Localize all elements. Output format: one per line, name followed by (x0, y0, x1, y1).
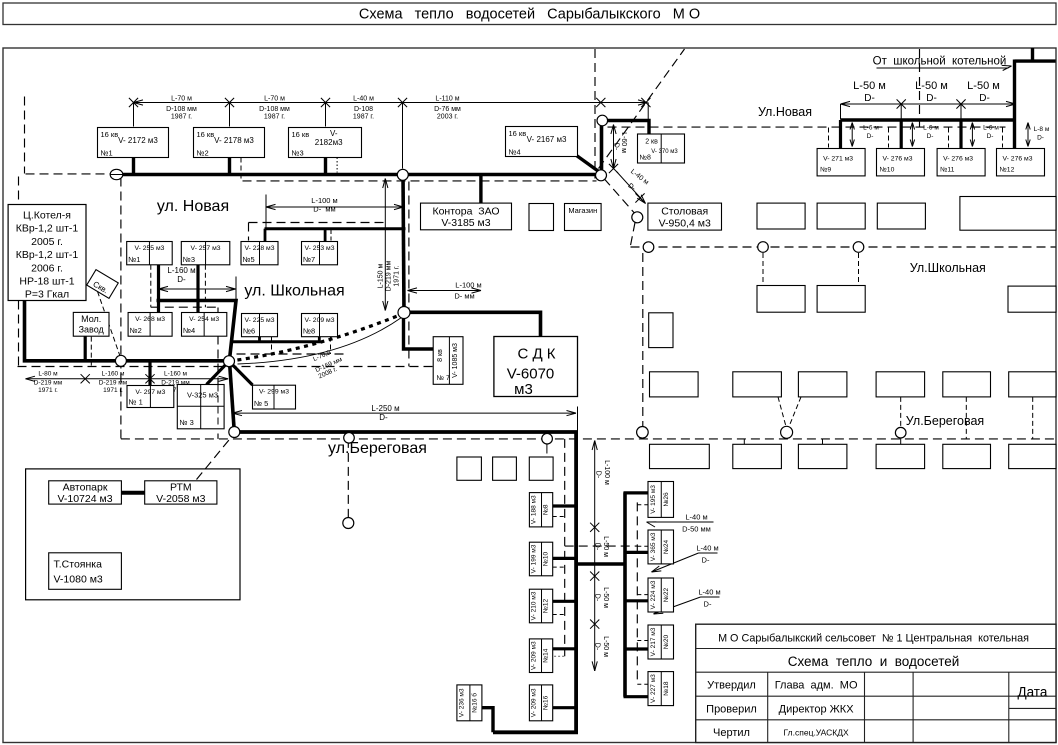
house V-224 No22 (648, 578, 674, 612)
svg-text:м3: м3 (514, 381, 533, 398)
svg-text:D-219 мм: D-219 мм (386, 260, 393, 291)
svg-text:L-250 м: L-250 м (371, 404, 399, 413)
svg-text:№6: №6 (243, 327, 255, 336)
svg-text:V-1080 м3: V-1080 м3 (54, 574, 103, 586)
svg-text:L-80 м: L-80 м (38, 371, 58, 378)
svg-text:Проверил: Проверил (706, 704, 757, 716)
stubs street to row4 houses (743, 439, 745, 445)
house V-199 No10 (529, 542, 552, 576)
box Skv (87, 270, 119, 299)
svg-text:От школьной котельной: От школьной котельной (873, 56, 1007, 68)
svg-text:М О Сарыбалыкский сельсовет №: М О Сарыбалыкский сельсовет № 1 Централь… (718, 633, 1029, 645)
svg-text:ул.Береговая: ул.Береговая (328, 440, 427, 457)
well Shkolnaya a (643, 242, 654, 253)
house No9 (817, 149, 865, 176)
svg-text:1987 г.: 1987 г. (264, 114, 285, 121)
svg-text:V- 199 м3: V- 199 м3 (531, 544, 538, 573)
svg-text:D-: D- (177, 275, 186, 284)
dashed diagonal to stolovaya well (604, 179, 637, 216)
title block table (696, 624, 1056, 742)
dashed water line left vertical (24, 97, 26, 174)
well at x601 upper (597, 115, 608, 126)
svg-text:V- 276 м3: V- 276 м3 (1003, 156, 1033, 163)
house V-325 No3 group (177, 385, 224, 429)
dashed street Shkolnaya (631, 246, 1056, 248)
dashed stubs right column (637, 504, 648, 506)
dashed stubs below Shkolnaya wells (762, 253, 764, 286)
dimension L-150 vertical (384, 179, 386, 311)
svg-text:V- 209 м3: V- 209 м3 (305, 317, 335, 324)
svg-text:№4: №4 (183, 326, 195, 335)
svg-text:L-40 м: L-40 м (698, 588, 720, 597)
pipe vertical x601 (600, 120, 604, 176)
svg-text:№16: №16 (543, 695, 550, 710)
svg-text:ул. Новая: ул. Новая (157, 198, 229, 215)
svg-text:Утвердил: Утвердил (707, 680, 756, 692)
dimension L-250 (233, 412, 577, 414)
pipe feed houses 6 8 from below (232, 340, 321, 343)
house No11 (937, 149, 985, 176)
well Beregovaya SDK (542, 433, 553, 444)
dashed water line left lower vertical (18, 177, 20, 205)
pipe to house 7 (404, 314, 434, 350)
dashed V to Beregovaya well (778, 397, 786, 427)
dimension risers L-50 (840, 104, 842, 120)
svg-text:№ 3: № 3 (180, 418, 194, 427)
pipe riser to house V-297 (148, 361, 151, 388)
house V-225 No6 (242, 314, 278, 337)
svg-text:D-108 мм: D-108 мм (166, 106, 197, 113)
dimension L-160 (159, 288, 236, 290)
svg-text:V- 2172 м3: V- 2172 м3 (118, 136, 158, 145)
svg-text:Автопарк: Автопарк (63, 482, 108, 494)
box Magazin (565, 204, 602, 231)
svg-text:№16 б: №16 б (470, 693, 478, 713)
svg-text:V- 217 м3: V- 217 м3 (650, 627, 657, 656)
box Kontora ZAO (421, 203, 512, 230)
dashed drop Mol Zavod (90, 337, 92, 367)
dashed drops below houses 1-3 (150, 265, 152, 307)
well at x402 (397, 169, 408, 180)
svg-text:16 кв: 16 кв (197, 130, 215, 139)
house V-268 No2 (128, 313, 172, 337)
svg-text:Чертил: Чертил (713, 727, 750, 739)
empty house near Kontora (529, 204, 554, 231)
svg-text:V- 254 м3: V- 254 м3 (189, 316, 219, 323)
svg-text:№24: №24 (663, 539, 670, 554)
dashed diagonal from well Skv (98, 292, 121, 358)
svg-text:V- 227 м3: V- 227 м3 (650, 674, 657, 703)
pipe diagonals from well (207, 361, 230, 384)
house V-188 No8 (529, 493, 552, 527)
svg-text:L-40 м: L-40 м (685, 513, 707, 522)
svg-text:№11: №11 (940, 167, 955, 174)
svg-text:D-: D- (1037, 135, 1044, 142)
svg-text:L-70 м: L-70 м (264, 96, 285, 103)
svg-text:ул. Школьная: ул. Школьная (244, 283, 344, 300)
svg-text:D-: D- (926, 93, 937, 104)
svg-text:№4: №4 (509, 148, 521, 157)
svg-text:№1: №1 (128, 255, 140, 264)
dashed line y222 (249, 222, 384, 224)
house V-209 No8 (302, 314, 338, 337)
house 16kv No3 (289, 128, 362, 158)
svg-text:РТМ: РТМ (170, 482, 192, 494)
dashed stubs x965 x1034 (965, 397, 967, 439)
svg-text:2003 г.: 2003 г. (437, 114, 458, 121)
svg-text:D-76 мм: D-76 мм (434, 106, 461, 113)
svg-text:V- 224 м3: V- 224 м3 (650, 580, 657, 609)
dimension L-40 diagonal (617, 172, 646, 204)
svg-text:№1: №1 (101, 149, 113, 158)
dashed drop from house 2 (240, 158, 242, 180)
svg-text:№2: №2 (197, 149, 209, 158)
svg-text:№ 7: № 7 (437, 375, 450, 382)
svg-text:№8: №8 (640, 155, 652, 162)
dashed stubs left column (553, 516, 565, 518)
svg-text:Гл.спец.УАСКДХ: Гл.спец.УАСКДХ (784, 728, 849, 738)
svg-text:Дата: Дата (1017, 685, 1047, 700)
dashed drop near house 7 stub (330, 230, 332, 241)
dashed feeder right column (636, 502, 638, 684)
svg-text:V- 195 м3: V- 195 м3 (650, 485, 657, 514)
svg-text:D-50 мм: D-50 мм (682, 525, 711, 534)
dashed water line to well (26, 173, 111, 175)
house 16kv No2 (194, 128, 265, 158)
svg-text:Ул.Школьная: Ул.Школьная (910, 261, 986, 275)
svg-text:V- 209 м3: V- 209 м3 (531, 641, 538, 670)
svg-text:V-2058 м3: V-2058 м3 (156, 493, 205, 505)
house 8kv No7 (433, 337, 463, 385)
well Shkolnaya b (758, 242, 769, 253)
houses row below Beregovaya (650, 444, 710, 468)
dotted stub no14 (554, 655, 565, 657)
svg-text:V- 255 м3: V- 255 м3 (134, 245, 164, 252)
svg-text:НР-18 шт-1: НР-18 шт-1 (19, 276, 74, 288)
svg-text:№ 1: № 1 (129, 398, 143, 407)
svg-text:V-6070: V-6070 (507, 366, 555, 383)
svg-text:№14: №14 (543, 648, 550, 663)
svg-text:Завод: Завод (79, 325, 105, 335)
leader L-40 third (701, 596, 720, 598)
svg-text:V- 257 м3: V- 257 м3 (191, 245, 221, 252)
svg-text:L-50 м: L-50 м (853, 80, 886, 92)
well x120 (115, 355, 126, 366)
dashed stubs to houses 9-12 (828, 128, 830, 148)
pipe from school boilerhouse (1031, 48, 1034, 61)
svg-text:Ул.Береговая: Ул.Береговая (906, 414, 984, 428)
pipe from boiler house (25, 301, 230, 361)
svg-text:D-: D- (864, 93, 875, 104)
svg-text:16 кв: 16 кв (101, 130, 119, 139)
house V-217 No20 (648, 625, 674, 659)
svg-text:V- 2167 м3: V- 2167 м3 (527, 135, 567, 144)
svg-text:L-100 м: L-100 м (603, 460, 610, 485)
svg-text:L-40 м: L-40 м (696, 544, 718, 553)
house V-299 No5 (253, 385, 296, 409)
dimension L-100 right (408, 290, 482, 292)
svg-text:Глава адм. МО: Глава адм. МО (775, 680, 858, 692)
house V-195 No26 (648, 482, 674, 518)
pipe to house 2kv (600, 121, 650, 135)
svg-text:Директор ЖКХ: Директор ЖКХ (779, 704, 855, 716)
svg-text:D-: D- (702, 556, 710, 565)
house V-210 No12 (529, 589, 552, 623)
house V-227 No18 (648, 672, 674, 706)
svg-text:№8: №8 (543, 504, 550, 515)
dashed street Beregovaya (121, 438, 1056, 440)
dimension L-100 L-50x3 vertical (594, 441, 596, 671)
svg-text:№10: №10 (543, 552, 550, 567)
leader L-40 first (647, 521, 714, 523)
svg-text:8 кв: 8 кв (437, 349, 444, 362)
pipe stubs houses 9-11 (839, 120, 842, 149)
house V-236 No16b (457, 685, 482, 721)
dashed cross link y545 (565, 545, 638, 547)
svg-text:V- 271 м3: V- 271 м3 (823, 156, 853, 163)
double arrows L-6 (851, 123, 853, 147)
svg-text:L-110 м: L-110 м (435, 96, 459, 103)
dashed diagonal to RTM (197, 438, 232, 480)
svg-text:V- 276 м3: V- 276 м3 (883, 156, 913, 163)
svg-text:V- 210 м3: V- 210 м3 (531, 591, 538, 620)
svg-text:V- 370 м3: V- 370 м3 (651, 149, 678, 155)
dashed line y353 (237, 353, 346, 355)
svg-text:L-160 м: L-160 м (167, 266, 195, 275)
house 2kv No8 (638, 134, 685, 163)
svg-text:L-160 м: L-160 м (102, 371, 125, 378)
svg-text:D-: D- (595, 471, 602, 479)
pipe stubs right column (624, 491, 649, 494)
svg-text:КВр-1,2 шт-1: КВр-1,2 шт-1 (16, 223, 79, 235)
houses row above Beregovaya (650, 372, 699, 397)
dashed feeder left column (564, 439, 566, 656)
well at x600 (596, 170, 607, 181)
svg-text:V- 297 м3: V- 297 м3 (135, 389, 165, 396)
svg-text:1971 г.: 1971 г. (38, 387, 58, 394)
svg-text:V- 228 м3: V- 228 м3 (245, 245, 275, 252)
pipe dashed curve 2008 (229, 314, 404, 362)
svg-text:Т.Стоянка: Т.Стоянка (54, 559, 103, 571)
dimension L-60 vertical (613, 125, 615, 169)
svg-text:L-6 м: L-6 м (863, 125, 879, 132)
svg-text:V-950,4 м3: V-950,4 м3 (659, 218, 711, 230)
svg-text:№22: №22 (663, 588, 670, 603)
dashed vertical x595 (594, 49, 596, 179)
svg-text:V- 253 м3: V- 253 м3 (305, 245, 335, 252)
svg-text:V-: V- (330, 129, 338, 138)
house V-228 No5 (241, 242, 278, 265)
house No10 (877, 149, 925, 176)
svg-text:КВр-1,2 шт-1: КВр-1,2 шт-1 (16, 249, 79, 261)
tall house right of SDK (649, 313, 673, 348)
pipe slant to Beregovaya (230, 362, 235, 433)
svg-text:Мол.: Мол. (81, 314, 101, 324)
dimension line L-70/L-70/L-40/L-110 (134, 102, 648, 104)
house 16kv No1 (98, 128, 169, 158)
svg-text:L-6 м: L-6 м (923, 125, 939, 132)
svg-text:№20: №20 (663, 635, 670, 650)
svg-text:V- 209 м3: V- 209 м3 (531, 688, 538, 717)
svg-text:Схема тепло и водосетей: Схема тепло и водосетей (788, 654, 960, 669)
svg-text:D-108 мм: D-108 мм (259, 106, 290, 113)
svg-text:№26: №26 (663, 492, 670, 507)
svg-text:1971 г.: 1971 г. (103, 387, 123, 394)
svg-text:№12: №12 (543, 599, 550, 614)
dashed line below main pipe (243, 180, 597, 182)
svg-text:№3: №3 (292, 149, 304, 158)
svg-text:1987 г.: 1987 г. (353, 114, 374, 121)
svg-text:D-: D- (987, 133, 994, 140)
svg-text:L-50 м: L-50 м (602, 587, 609, 608)
stub below SDK well (546, 444, 548, 454)
svg-text:D-: D- (379, 413, 388, 422)
house V-209 No16 (529, 685, 552, 721)
pipe stub Mol Zavod (84, 336, 87, 361)
leader L-40 second (699, 552, 718, 554)
well Shkolnaya c (853, 242, 864, 253)
well Stolovaya (632, 212, 643, 223)
dashed line y306 (151, 306, 218, 308)
svg-text:2 кв: 2 кв (645, 139, 658, 146)
svg-text:V- 188 м3: V- 188 м3 (531, 495, 538, 524)
svg-text:L-6 м: L-6 м (983, 125, 999, 132)
box T.Stoyanka (49, 553, 122, 590)
house V-209 No14 (529, 639, 552, 673)
box central boiler house (8, 205, 86, 301)
svg-text:№18: №18 (663, 681, 670, 696)
svg-text:1971 г.: 1971 г. (394, 265, 401, 286)
house V-255 No1 (127, 242, 173, 265)
pipe to SDK (404, 312, 541, 337)
svg-text:D-: D- (594, 594, 601, 602)
svg-text:D-: D- (613, 143, 620, 151)
svg-text:№9: №9 (820, 167, 831, 174)
svg-text:16 кв: 16 кв (292, 130, 310, 139)
well Beregovaya x642 (637, 427, 649, 439)
pipe Beregovaya and down (234, 432, 576, 732)
svg-text:V- 2178 м3: V- 2178 м3 (214, 136, 254, 145)
pipe right column vertical (623, 492, 627, 696)
svg-text:Контора ЗАО: Контора ЗАО (432, 206, 499, 218)
svg-text:L-50 м: L-50 м (602, 636, 609, 657)
pipe hook house 16b (482, 708, 493, 733)
svg-text:D-: D- (704, 600, 712, 609)
svg-text:С Д К: С Д К (517, 346, 555, 363)
big house right (960, 197, 1056, 231)
svg-text:№12: №12 (1000, 167, 1015, 174)
svg-text:Ц.Котел-я: Ц.Котел-я (23, 210, 71, 222)
house V-253 No7 (302, 242, 338, 265)
dashed vertical x408 (408, 182, 410, 367)
svg-text:Р=3 Гкал: Р=3 Гкал (25, 289, 69, 301)
svg-text:№5: №5 (243, 255, 255, 264)
pipe diagonal house 4 (577, 156, 602, 174)
svg-text:№10: №10 (880, 167, 895, 174)
house No12 (997, 149, 1045, 176)
svg-text:16 кв: 16 кв (509, 129, 527, 138)
pipe vertical x403 (403, 175, 404, 313)
dashed water line x120 vertical (120, 178, 122, 439)
svg-text:D-: D- (927, 133, 934, 140)
dashed street Novaya right (608, 126, 1006, 128)
dimension line L-50x3 (841, 103, 1016, 105)
svg-text:Магазин: Магазин (568, 206, 597, 215)
box Stolovaya (648, 203, 722, 230)
svg-text:L-40 м: L-40 м (353, 96, 374, 103)
house V-254 No4 (182, 313, 227, 337)
svg-text:V-10724 м3: V-10724 м3 (57, 493, 112, 505)
house V-257 No3 (181, 242, 230, 265)
svg-text:L-70 м: L-70 м (171, 96, 192, 103)
dashed water main horizontal y366 (18, 366, 434, 368)
svg-text:L-50 м: L-50 м (915, 80, 948, 92)
svg-text:D-219 мм: D-219 мм (34, 380, 63, 387)
well Beregovaya x900 (895, 427, 906, 438)
pipe Shkolnaya top (265, 227, 406, 230)
title bar frame (3, 3, 1056, 25)
well ellipse left (110, 169, 123, 179)
well dead-end (343, 518, 354, 529)
pipe Shkolnaya lower (157, 301, 237, 360)
small houses below Beregovaya left (457, 457, 482, 480)
svg-text:Столовая: Столовая (661, 206, 708, 218)
svg-text:№8: №8 (303, 327, 315, 336)
leader line shkolnaya kotelnaya (877, 67, 1009, 69)
svg-text:L-100 м: L-100 м (455, 281, 481, 290)
svg-text:V-3185 м3: V-3185 м3 (441, 217, 490, 229)
svg-text:V- 299 м3: V- 299 м3 (259, 389, 289, 396)
pipe risers houses 1-3 (132, 157, 135, 175)
dashed diagonal upper (599, 49, 685, 169)
svg-text:V- 268 м3: V- 268 м3 (135, 316, 165, 323)
dashed vertical x642 to Beregovaya (642, 253, 644, 426)
box Avtopark group frame (26, 469, 240, 600)
houses row above Shkolnaya (757, 203, 805, 229)
house V-297 No1 (127, 386, 174, 408)
svg-text:Ул.Новая: Ул.Новая (758, 105, 812, 119)
thick connector Avtopark-RTM (121, 491, 144, 495)
dashed drops houses 6 8 (271, 337, 273, 355)
pipe stubs houses 5 7 (264, 229, 267, 242)
dimension L-100 Shkolnaya (266, 206, 404, 208)
svg-text:D-108: D-108 (354, 106, 373, 113)
svg-text:1987 г.: 1987 г. (171, 114, 192, 121)
svg-text:№2: №2 (130, 326, 142, 335)
svg-text:D-: D- (594, 543, 601, 551)
svg-text:D-: D- (594, 643, 601, 651)
svg-text:D-219 мм: D-219 мм (99, 380, 128, 387)
pipe risers houses 1-4 lower (157, 264, 160, 314)
dashed vertical x217 (217, 308, 219, 439)
svg-text:V- 236 м3: V- 236 м3 (459, 688, 466, 717)
svg-text:2005 г.: 2005 г. (31, 236, 63, 248)
dimension L-80 L-160 L-160 (26, 378, 229, 380)
dashed vertical x919 (919, 49, 921, 128)
svg-text:Схема тепло водосетей Са: Схема тепло водосетей Сарыбалыкского М О (359, 7, 700, 23)
pipe Novaya right (841, 118, 1017, 121)
well x228 (224, 356, 235, 367)
svg-text:L-8 м: L-8 м (1034, 126, 1050, 133)
svg-text:D- мм: D- мм (313, 205, 335, 214)
svg-text:2182м3: 2182м3 (315, 138, 343, 147)
well SDK junction (398, 307, 410, 319)
svg-text:L-50 м: L-50 м (967, 80, 1000, 92)
pipe feed right column (576, 562, 625, 566)
house 16kv No4 (506, 127, 578, 157)
svg-text:V- 276 м3: V- 276 м3 (943, 156, 973, 163)
svg-text:D-: D- (979, 93, 990, 104)
